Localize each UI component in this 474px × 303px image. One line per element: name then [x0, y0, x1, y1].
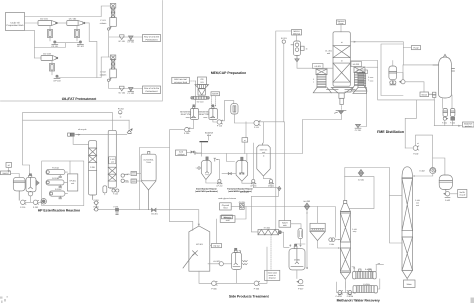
column C1 (stripper): [340, 201, 350, 280]
svg-text:unit: unit: [71, 182, 75, 185]
svg-text:TANK: TANK: [146, 161, 152, 164]
wire C-101 bottoms: [109, 31, 143, 58]
svg-text:P-401A: P-401A: [336, 295, 343, 298]
out box 1: [143, 35, 161, 42]
svg-text:column: column: [100, 73, 106, 76]
silo side instruments: [124, 172, 141, 184]
svg-text:P-305: P-305: [211, 287, 217, 290]
svg-text:GP-202: GP-202: [216, 184, 222, 187]
svg-text:feed: feed: [223, 207, 227, 210]
wire column bottom out: [341, 105, 343, 111]
svg-text:recycle: recycle: [459, 193, 465, 196]
tray column TC-201: [291, 41, 308, 56]
concentric symbol at corner: [41, 199, 47, 205]
big slant tank: [183, 226, 210, 271]
svg-text:TI-201: TI-201: [124, 180, 129, 183]
cartridge filter FT-101: [231, 104, 238, 114]
inline filter square: [114, 206, 119, 215]
clarifier: [310, 223, 325, 240]
surge capsule V-301: [389, 61, 397, 80]
svg-text:P-109: P-109: [184, 132, 190, 135]
svg-text:REACTOR: REACTOR: [199, 113, 210, 116]
pump P-110: [217, 120, 223, 128]
svg-text:column: column: [100, 22, 106, 25]
gear pump GP-301: [239, 201, 246, 209]
flow meter: [281, 37, 288, 43]
screw conveyor SC-110: [191, 96, 210, 103]
pump PB: [347, 291, 354, 298]
stirred neutralizer vessel: [289, 244, 305, 270]
tank label box: [212, 244, 222, 248]
reflux pump P-402: [413, 142, 419, 155]
wire to column C-101: [101, 6, 110, 17]
wire P-110 up to filter FT-101: [222, 101, 234, 121]
svg-text:CY-102: CY-102: [127, 92, 134, 95]
svg-text:SC-110: SC-110: [197, 101, 205, 104]
merge line to product box: [434, 120, 461, 126]
svg-text:P-401B: P-401B: [347, 295, 354, 298]
vent line right duct: [361, 92, 367, 127]
svg-text:NT-301: NT-301: [294, 259, 300, 262]
svg-text:P-205: P-205: [113, 193, 118, 196]
tube reactor TR-3: [49, 188, 65, 199]
drain under V3: [268, 179, 274, 187]
wire column side-draw east: [350, 61, 434, 149]
svg-text:MeOH: MeOH: [460, 191, 466, 194]
pump under capsule: [390, 81, 396, 85]
eductor under column: [335, 111, 347, 115]
wires C1 bottom to pumps: [337, 279, 346, 292]
column C-102: [110, 55, 117, 78]
wire column overhead east: [350, 41, 403, 42]
long feed line down west: [276, 31, 292, 230]
upper label box + capsule filter: [279, 220, 291, 227]
wire from pretreatment down: [23, 113, 130, 174]
drain D-103: [54, 75, 62, 83]
wire P-109 west to header: [170, 130, 185, 222]
svg-text:Water: Water: [407, 283, 413, 286]
horizontal HX (zigzag): [258, 227, 281, 235]
ER2 inlet valve left: [228, 173, 231, 175]
filter triangle right of V2: [36, 180, 39, 185]
pump under drum: [444, 190, 450, 203]
hopper drain H-101: [127, 36, 134, 44]
relief valve on top: [358, 170, 364, 182]
svg-text:OIL/FAT Pretreatment: OIL/FAT Pretreatment: [62, 97, 97, 101]
tube reactor TR-1: [46, 167, 65, 178]
svg-text:CY-101: CY-101: [127, 41, 134, 44]
svg-text:P-307: P-307: [298, 287, 304, 290]
wire D-103 east to column C-102: [59, 57, 111, 78]
long transfer line: [244, 207, 335, 238]
svg-text:MEK raw mat: MEK raw mat: [174, 78, 187, 81]
coil marks right of SV: [243, 261, 248, 265]
wire column left C2: [390, 195, 403, 197]
filter F-101: [48, 26, 53, 38]
svg-text:Side Products Treatment: Side Products Treatment: [229, 295, 270, 299]
methanol label box: [211, 92, 220, 96]
svg-text:XV-401: XV-401: [358, 178, 364, 181]
svg-text:HE-202: HE-202: [353, 63, 359, 66]
wire ER2 bottom to drain: [242, 143, 253, 183]
small capsule T2: [450, 109, 455, 125]
svg-text:unit: unit: [416, 204, 419, 207]
svg-text:Pretreatment: Pretreatment: [145, 90, 157, 93]
piping rect around valve: [345, 168, 402, 244]
wire drains merge to decanter DC-103: [35, 43, 79, 58]
svg-text:MV-201: MV-201: [151, 212, 158, 215]
svg-text:unit: unit: [327, 52, 331, 55]
wire R-101 to pump P-109: [189, 120, 193, 129]
drain D-101: [50, 38, 59, 49]
svg-text:C-101: C-101: [100, 19, 106, 22]
svg-text:disposal: disposal: [269, 277, 277, 280]
feed header labels: [200, 141, 208, 143]
svg-text:P-402: P-402: [413, 153, 418, 156]
svg-text:Methanol / Water Recovery: Methanol / Water Recovery: [337, 299, 380, 303]
corner mark right: [471, 298, 474, 303]
label box + valve left of vessel: [420, 92, 429, 97]
svg-text:conveyor feed: conveyor feed: [174, 81, 188, 84]
tube reactor TR-2: [46, 177, 64, 188]
nozzle under C-101: [107, 27, 111, 30]
wires condenser to column top: [414, 174, 433, 176]
decanter DC-102: [67, 18, 85, 26]
feed label box 2: [1, 171, 11, 175]
label box w/ arrow: [176, 150, 187, 156]
memo box: [265, 270, 280, 280]
capsule filter: [298, 229, 303, 239]
reactor R-102 (stirred): [209, 105, 218, 120]
shell&tube HX2: [353, 283, 377, 293]
wire DC-102 circle east down: [85, 23, 97, 78]
silo SL-201: [141, 152, 156, 210]
svg-text:to GL-301: to GL-301: [240, 191, 248, 194]
falling film evaporator FFE: [353, 70, 368, 93]
esterification reactor ER2: [236, 157, 248, 181]
svg-text:Pretreatment: Pretreatment: [145, 38, 157, 41]
svg-text:soln: soln: [283, 224, 287, 227]
svg-text:DC-103: DC-103: [43, 53, 51, 56]
svg-text:crude glycerol stream: crude glycerol stream: [218, 197, 236, 200]
svg-text:Purge: Purge: [413, 46, 419, 49]
overhead label box: [412, 46, 421, 50]
wire DC-101 to DC-102: [58, 22, 67, 24]
svg-text:catalyst: catalyst: [178, 153, 185, 156]
svg-text:R-201A: R-201A: [52, 167, 59, 170]
label box MEOH: [292, 30, 302, 36]
wire branch down to hopper V3: [263, 122, 265, 143]
decanter DC-101: [38, 18, 58, 26]
left heater HE-201: [313, 64, 332, 93]
pump circle P-301: [400, 80, 406, 84]
separator box in rect: [68, 174, 78, 191]
pump under vessel: [296, 270, 298, 279]
pump PA: [336, 291, 343, 298]
svg-text:P-202: P-202: [33, 206, 39, 209]
svg-text:FME Distillation: FME Distillation: [377, 130, 404, 134]
gear pump to column C1: [329, 238, 335, 246]
column B: [108, 130, 116, 188]
label box right: [458, 190, 467, 198]
svg-text:C-201: C-201: [90, 166, 95, 169]
svg-text:MEK/CAP Preparation: MEK/CAP Preparation: [211, 71, 246, 75]
svg-text:P-403: P-403: [445, 199, 450, 202]
svg-text:R-201B: R-201B: [52, 177, 59, 180]
svg-text:SC-101: SC-101: [118, 40, 126, 43]
svg-text:Flow of oil to the: Flow of oil to the: [144, 36, 160, 39]
wire MEK box to grinder: [189, 80, 196, 82]
svg-text:HE-201: HE-201: [314, 65, 320, 68]
pump P-109: [184, 128, 190, 136]
svg-text:feed: feed: [207, 134, 211, 137]
duct right heater to column: [345, 90, 355, 92]
svg-text:Makeup: Makeup: [293, 32, 301, 35]
C2 bottom box: [406, 279, 408, 280]
feed label box MEK: [172, 77, 190, 83]
memo box top: [222, 215, 233, 219]
small bottoms vessel under column B: [103, 186, 119, 196]
reflux drum capsule: [439, 175, 452, 190]
dashed to memo box: [270, 235, 272, 270]
hopper drain H-102: [127, 87, 134, 95]
svg-text:SC-102: SC-102: [118, 91, 126, 94]
duct left heater to column: [327, 90, 339, 93]
condenser circle: [430, 167, 436, 173]
wire tray column to big column: [297, 62, 333, 68]
svg-text:(with EtOH purification): (with EtOH purification): [195, 190, 218, 193]
svg-text:BIODIESEL: BIODIESEL: [199, 111, 211, 114]
label box 2: [220, 216, 235, 223]
svg-text:unit: unit: [111, 160, 114, 163]
svg-text:HP Esterification Reaction: HP Esterification Reaction: [38, 208, 80, 212]
svg-text:P-304: P-304: [329, 243, 334, 246]
nozzle under C-102: [107, 78, 111, 81]
product label box: [463, 122, 474, 127]
drain under tray column: [295, 56, 299, 62]
svg-text:HX-302: HX-302: [213, 260, 219, 263]
wire P-111 discharge east: [259, 121, 284, 123]
svg-text:E-402: E-402: [419, 170, 424, 173]
grinder hopper GR-101: [195, 77, 209, 95]
svg-text:FI-202: FI-202: [118, 108, 125, 111]
feed box S-101: [6, 13, 25, 31]
tank V1 capsule: [13, 177, 25, 191]
small capsule T1: [442, 109, 447, 125]
svg-text:Glycerol: Glycerol: [222, 204, 230, 207]
svg-text:LI-201: LI-201: [124, 173, 129, 176]
esterification reactor ER1: [201, 157, 211, 180]
wire into FFE top: [367, 66, 378, 68]
svg-text:oil recycle: oil recycle: [78, 128, 86, 131]
svg-text:2: 2: [368, 79, 369, 82]
small feed box above ER2: [242, 138, 248, 142]
svg-text:unit: unit: [262, 151, 266, 154]
reactor R-101 (stirred): [190, 105, 198, 120]
svg-text:product: product: [465, 125, 472, 128]
svg-text:Preparation Work: Preparation Work: [7, 24, 25, 27]
svg-text:Steam: Steam: [421, 93, 427, 96]
column C-101: [110, 4, 117, 27]
pumps: [19, 191, 39, 209]
valve MV-301 on line: [304, 200, 311, 214]
pumps under column A: [93, 195, 99, 211]
filter F-102: [75, 26, 80, 38]
small valve at corner: [278, 186, 281, 190]
column C2 (rectifier): [402, 167, 413, 279]
label box above column: [336, 20, 345, 25]
discharge line east: [98, 208, 152, 210]
svg-text:MeOH: MeOH: [3, 172, 9, 175]
strainer Y-101: [118, 35, 126, 43]
svg-text:GP-103: GP-103: [54, 79, 62, 82]
big column CL-201: [333, 32, 350, 86]
pumps bottom: [199, 271, 212, 283]
svg-text:C-102: C-102: [100, 71, 106, 74]
svg-text:GP-102: GP-102: [77, 45, 85, 48]
svg-text:MeOH: MeOH: [212, 93, 219, 96]
drain D-102: [77, 38, 85, 49]
shell&tube HX1: [353, 268, 377, 279]
column A: [89, 141, 97, 195]
wire C-102 bottoms: [109, 82, 143, 89]
svg-text:Flow of oil to the: Flow of oil to the: [144, 87, 160, 90]
wire eductor west down to esterification: [197, 115, 342, 154]
wire FT-101 to pump P-111: [234, 114, 253, 123]
strainer Y-102: [118, 86, 126, 94]
svg-text:MT-301: MT-301: [196, 243, 204, 246]
svg-text:NaOH: NaOH: [282, 221, 288, 224]
svg-text:HX-301: HX-301: [264, 227, 270, 230]
check valve symbol: [127, 129, 132, 134]
svg-text:P-111: P-111: [254, 126, 260, 129]
ball under V2: [28, 191, 33, 196]
drain right of ER2: [250, 179, 256, 187]
wire V3 bottom: [263, 176, 271, 179]
hopper vessel V3: [257, 143, 270, 176]
wire R-102 to pump P-110: [213, 120, 217, 123]
dashed feeds into reactor R-102: [212, 96, 216, 106]
section border: [1, 1, 163, 102]
wire ER1 relief to drain: [206, 160, 220, 184]
valve on bottom line: [151, 208, 158, 215]
filter F-103: [50, 61, 55, 75]
svg-text:BIODIESEL: BIODIESEL: [180, 111, 192, 114]
svg-text:1: 1: [313, 81, 314, 84]
ER1 top-right relief: [214, 158, 218, 161]
svg-text:P-110: P-110: [217, 124, 223, 127]
drain under ER1: [216, 179, 222, 187]
big FME vessel V-302: [433, 54, 455, 98]
svg-text:REACTOR: REACTOR: [181, 113, 192, 116]
decanter DC-103: [41, 53, 58, 61]
small stirred vessel SV: [232, 248, 242, 269]
corner watermark left: [0, 296, 8, 303]
svg-text:Crude Oil: Crude Oil: [10, 21, 20, 24]
relief circles right of column B: [121, 174, 128, 183]
out box 2: [143, 86, 161, 94]
svg-text:P-306: P-306: [254, 287, 260, 290]
svg-text:Water in: Water in: [223, 216, 230, 219]
equipment boundary rect: [42, 161, 84, 206]
svg-text:acid: acid: [226, 219, 230, 222]
svg-text:strip: strip: [353, 230, 356, 233]
column collector funnel: [331, 88, 353, 105]
vessel bottom outlet: [443, 95, 453, 109]
wires FME: [403, 65, 439, 92]
vent drain: [355, 124, 362, 132]
wire feed box to decanter row: [25, 17, 102, 59]
pump P-111: [254, 120, 260, 128]
ER1 left instrument: [195, 167, 200, 170]
svg-text:P-201: P-201: [20, 206, 26, 209]
feed label box: [6, 163, 12, 168]
right heater HE-202: [351, 62, 367, 92]
svg-text:CY-201: CY-201: [355, 129, 362, 132]
HX1 wires: [352, 265, 384, 272]
svg-text:Gly out: Gly out: [213, 245, 220, 248]
stirred vessel V2: [26, 174, 36, 192]
svg-text:E-401A: E-401A: [365, 268, 372, 271]
inlet valve cluster: [191, 151, 197, 155]
